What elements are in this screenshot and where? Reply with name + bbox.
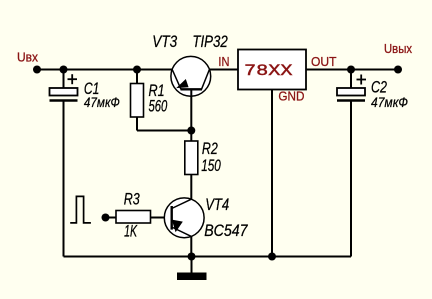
transistor VT4 (NPN BC547) xyxy=(164,198,204,257)
wire: bottom rail xyxy=(64,256,352,258)
regulator U1 78XX box xyxy=(238,50,306,90)
node C2 junction xyxy=(347,66,355,74)
svg-text:Uвых: Uвых xyxy=(384,41,412,56)
svg-text:1K: 1K xyxy=(124,223,138,241)
wire: top rail from Uvx node to VT3 left xyxy=(37,69,172,71)
resistor R2 xyxy=(185,131,198,200)
resistor R1 xyxy=(131,70,192,131)
pulse input symbol xyxy=(70,196,91,223)
node Uvyh terminal xyxy=(394,66,402,74)
node C1 junction xyxy=(60,66,68,74)
node 78XX GND junction xyxy=(268,253,276,261)
ground xyxy=(177,257,207,281)
svg-text:Uвх: Uвх xyxy=(17,49,38,64)
svg-text:560: 560 xyxy=(149,97,168,115)
wire: 78XX GND lead down to rail xyxy=(271,90,273,257)
node VT4 emitter / ground junction xyxy=(188,253,196,261)
node R3 input terminal xyxy=(102,214,110,222)
svg-text:78XX: 78XX xyxy=(244,62,293,80)
wire: VT3 right to 78XX box xyxy=(209,69,238,71)
svg-text:R3: R3 xyxy=(124,191,140,209)
capacitor C2 xyxy=(337,70,366,257)
resistor R3 xyxy=(106,211,172,224)
svg-text:47мкФ: 47мкФ xyxy=(84,95,120,110)
svg-text:BC547: BC547 xyxy=(204,222,248,240)
svg-text:GND: GND xyxy=(278,88,304,103)
capacitor C1 xyxy=(50,70,78,257)
svg-text:IN: IN xyxy=(218,54,229,69)
node R1 top junction xyxy=(133,66,141,74)
svg-text:150: 150 xyxy=(201,157,221,175)
svg-text:47мкФ: 47мкФ xyxy=(371,95,408,110)
svg-text:VT3: VT3 xyxy=(152,33,177,51)
svg-text:OUT: OUT xyxy=(311,54,337,69)
svg-text:R2: R2 xyxy=(202,140,218,158)
transistor VT3 (PNP TIP32) xyxy=(171,56,211,130)
svg-text:C2: C2 xyxy=(371,79,387,97)
node Uvx terminal xyxy=(33,66,41,74)
svg-text:VT4: VT4 xyxy=(205,196,229,214)
svg-text:TIP32: TIP32 xyxy=(192,33,227,51)
node R1/R2/VT3 base junction xyxy=(187,127,195,135)
wire: 78XX box to Uvyh terminal xyxy=(306,69,398,71)
